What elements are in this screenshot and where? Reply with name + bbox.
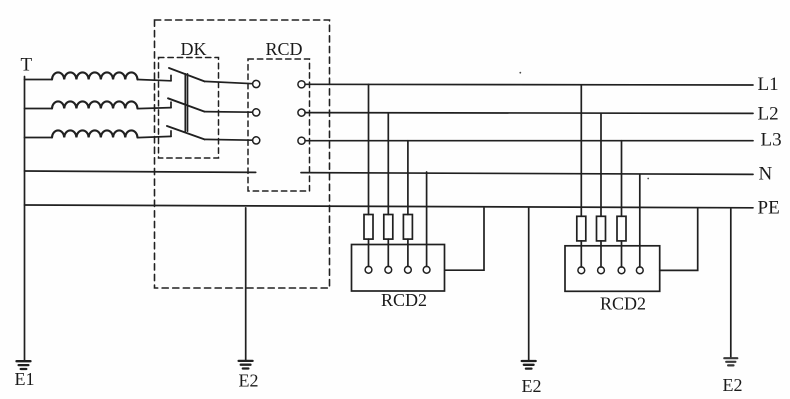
RCD2 terminal 3 (first) xyxy=(405,266,412,273)
transformer winding B xyxy=(52,101,137,108)
svg-text:N: N xyxy=(759,164,773,185)
wire: L3 drop to fuse group 1 xyxy=(407,141,409,215)
transformer winding A xyxy=(52,72,137,79)
fuse F3 group 1 xyxy=(403,215,412,240)
RCD2 terminal 2 (second) xyxy=(598,267,605,274)
wire: PE tap to RCD2 body (first) xyxy=(445,208,484,270)
svg-text:E2: E2 xyxy=(723,375,743,395)
wire: DK pole 2 to RCD xyxy=(205,111,253,114)
svg-text:E2: E2 xyxy=(522,376,542,396)
wire PE line xyxy=(25,205,754,208)
switch DK pole 2 blade xyxy=(168,98,205,111)
svg-text:E2: E2 xyxy=(239,371,259,391)
RCD2 terminal 2 (first) xyxy=(385,266,392,273)
scan speck 1 xyxy=(519,72,521,74)
fuse F2 group 1 xyxy=(384,215,393,240)
wire: phase C from bus to winding xyxy=(25,137,53,139)
label L1 xyxy=(758,74,779,95)
label RCD2 (first) xyxy=(381,290,427,310)
svg-text:DK: DK xyxy=(181,39,207,59)
label E2 (second) xyxy=(522,376,542,396)
svg-text:T: T xyxy=(21,55,33,76)
fuse F3 group 2 xyxy=(617,216,626,241)
wire: fuse F2 to RCD2 terminal group 2 xyxy=(600,241,602,267)
RCD terminal circle L1 in xyxy=(253,80,260,87)
ground E2 (first) xyxy=(239,361,253,369)
wire: fuse F3 to RCD2 terminal xyxy=(407,239,409,266)
wire: phase B from bus to winding xyxy=(25,108,53,110)
wire: winding C to DK xyxy=(138,136,172,137)
RCD terminal circle L3 out xyxy=(298,137,305,144)
RCD2 terminal 1 (first) xyxy=(365,266,372,273)
ground E2 (third) xyxy=(724,358,737,365)
label E2 (first) xyxy=(239,371,259,391)
RCD2 box (first) xyxy=(352,245,445,292)
outer enclosure dashed box xyxy=(155,20,330,288)
RCD dashed box xyxy=(248,59,310,191)
switch DK linkage bar xyxy=(185,74,187,131)
wire: L2 drop group 2 xyxy=(600,114,602,217)
transformer label T xyxy=(21,55,33,76)
label N xyxy=(759,164,773,185)
label RCD2 (second) xyxy=(600,294,646,314)
RCD2 terminal 1 (second) xyxy=(578,267,585,274)
label L2 xyxy=(758,104,779,125)
wire L2 line xyxy=(305,112,753,115)
wire: L3 drop group 2 xyxy=(621,141,623,217)
switch DK pole 2 fixed contact xyxy=(170,102,172,108)
svg-text:L3: L3 xyxy=(761,130,782,151)
ground E2 (second) xyxy=(522,361,536,369)
switch DK pole 3 fixed contact xyxy=(170,131,172,137)
RCD2 terminal 4 (first) xyxy=(423,266,430,273)
fuse F1 group 1 xyxy=(364,215,373,240)
RCD terminal circle L1 out xyxy=(298,81,305,88)
wire: fuse F2 to RCD2 terminal xyxy=(387,239,389,266)
svg-text:E1: E1 xyxy=(15,369,35,389)
wire L3 line xyxy=(305,140,753,142)
ground E1 xyxy=(17,361,31,369)
switch DK dashed box xyxy=(159,58,219,159)
fuse F1 group 2 xyxy=(577,216,586,241)
svg-text:RCD: RCD xyxy=(266,39,303,59)
RCD terminal circle L3 in xyxy=(253,137,260,144)
label DK xyxy=(181,39,207,59)
wire: enclosure PE drop to E2 xyxy=(245,208,247,360)
wire: PE drop to E2 (second) xyxy=(528,207,530,360)
label RCD xyxy=(266,39,303,59)
switch DK pole 3 blade xyxy=(167,126,205,139)
wire: PE drop to E2 (third) xyxy=(730,209,732,358)
svg-text:RCD2: RCD2 xyxy=(600,294,646,314)
fuse F2 group 2 xyxy=(597,216,606,241)
svg-text:RCD2: RCD2 xyxy=(381,290,427,310)
svg-text:PE: PE xyxy=(758,198,780,219)
wire: fuse F1 to RCD2 terminal xyxy=(368,239,370,266)
RCD terminal circle L2 in xyxy=(253,109,260,116)
wire: L1 drop group 2 xyxy=(580,85,582,216)
wire: DK pole 3 to RCD xyxy=(205,138,253,141)
wire: winding B to DK xyxy=(138,108,172,109)
wire N line left of RCD xyxy=(25,171,256,172)
wire: fuse F3 to RCD2 terminal group 2 xyxy=(621,241,623,267)
svg-text:L1: L1 xyxy=(758,74,779,95)
label PE xyxy=(758,198,780,219)
RCD2 terminal 4 (second) xyxy=(636,267,643,274)
wire: fuse to RCD2 terminal group 2 xyxy=(580,241,582,267)
switch DK pole 1 fixed contact xyxy=(170,75,172,81)
RCD2 terminal 3 (second) xyxy=(618,267,625,274)
wire: L2 drop to fuse group 1 xyxy=(387,113,389,215)
wire L1 line xyxy=(305,83,753,86)
wire: N drop group 2 xyxy=(639,174,641,267)
wire N line right of RCD xyxy=(301,173,753,175)
wire: N drop to RCD2 terminal group 1 xyxy=(426,172,428,266)
transformer winding C xyxy=(52,130,137,137)
label E1 xyxy=(15,369,35,389)
RCD terminal circle L2 out xyxy=(298,109,305,116)
wire: DK pole 1 to RCD xyxy=(205,81,253,83)
wire: PE tap to RCD2 body (second) xyxy=(660,209,698,271)
svg-text:L2: L2 xyxy=(758,104,779,125)
wire: left bus vertical from transformer to E1 ground xyxy=(24,77,26,361)
label E2 (third) xyxy=(723,375,743,395)
label L3 xyxy=(761,130,782,151)
wire: phase A from bus to winding xyxy=(25,79,53,81)
wire: winding A to DK xyxy=(138,80,172,81)
scan speck 2 xyxy=(647,178,649,180)
RCD2 box (second) xyxy=(565,246,660,291)
wire: L1 drop to fuse group 1 xyxy=(368,84,370,214)
switch DK pole 1 blade xyxy=(169,68,205,81)
